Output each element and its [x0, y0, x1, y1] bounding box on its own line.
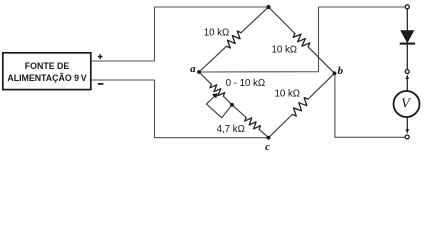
resistor R4 lead to node c: [259, 129, 268, 137]
power supply text: [3, 60, 91, 84]
potentiometer wiper arm wire: [207, 97, 215, 105]
svg-text:V: V: [401, 96, 411, 111]
wire: supply - terminal to node c: [91, 80, 269, 138]
resistor R3 10 kOhm bottom-right arm: lead from node c: [269, 115, 293, 138]
diode D1 triangle: [400, 30, 414, 43]
voltmeter probe arrowhead up: [406, 74, 409, 79]
label: supply + terminal: [98, 54, 103, 59]
svg-text:10 kΩ: 10 kΩ: [272, 45, 298, 56]
diode D1 cathode bar: [400, 43, 415, 45]
terminal: bottom-right open circle: [405, 135, 409, 139]
resistor R3 zigzag: [292, 98, 308, 116]
svg-text:10 kΩ: 10 kΩ: [275, 88, 301, 99]
voltmeter M1 circle: [394, 91, 420, 117]
potentiometer P1 0-10 kOhm: lead from node a: [199, 72, 211, 84]
voltmeter probe lead down: [406, 117, 408, 130]
junction dot: node b: [333, 71, 337, 75]
junction dot: potentiometer/4.7k junction: [230, 103, 234, 107]
svg-text:10 kΩ: 10 kΩ: [204, 28, 230, 39]
junction dot: node a: [197, 70, 201, 74]
resistor R1 10 kOhm top-left arm: lead from top node: [241, 7, 269, 33]
resistor R1 lead to node a: [199, 46, 227, 72]
wire: node b down to voltmeter terminal: [335, 73, 405, 137]
terminal: top-right open circle: [405, 5, 409, 9]
wire: node a up-and-over to diode terminal: [199, 7, 405, 72]
diode D1 cathode lead: [406, 45, 408, 70]
resistor R2 10 kOhm top-right arm: lead from top node: [269, 7, 295, 34]
label: supply - terminal: [98, 83, 104, 85]
junction dot: bridge top node: [266, 5, 270, 9]
potentiometer P1 zigzag: [210, 84, 225, 96]
wire: supply + terminal to bridge top node: [91, 7, 269, 61]
svg-text:c: c: [265, 141, 270, 153]
potentiometer wiper arrowhead: [212, 93, 218, 98]
resistor R3 lead to node b: [308, 73, 334, 99]
svg-text:b: b: [338, 65, 344, 77]
svg-text:4,7 kΩ: 4,7 kΩ: [217, 124, 245, 135]
voltmeter probe arrowhead down: [406, 129, 409, 134]
svg-text:a: a: [190, 63, 196, 75]
resistor R2 zigzag: [293, 34, 310, 47]
diode D1 anode lead: [406, 9, 408, 31]
resistor R4 4.7 kOhm: lead from junction: [232, 105, 246, 118]
potentiometer wiper bypass wire to lower terminal: [207, 104, 233, 118]
resistor R2 lead to node b: [308, 47, 334, 74]
resistor R1 zigzag: [227, 31, 242, 48]
potentiometer P1 lead to junction: [223, 96, 232, 105]
svg-text:0 - 10 kΩ: 0 - 10 kΩ: [226, 78, 266, 89]
resistor R4 zigzag: [245, 118, 261, 130]
terminal: diode cathode open circle: [405, 70, 409, 74]
voltmeter probe lead up: [406, 78, 408, 91]
power supply box: [3, 53, 91, 90]
junction dot: node c: [267, 136, 271, 140]
